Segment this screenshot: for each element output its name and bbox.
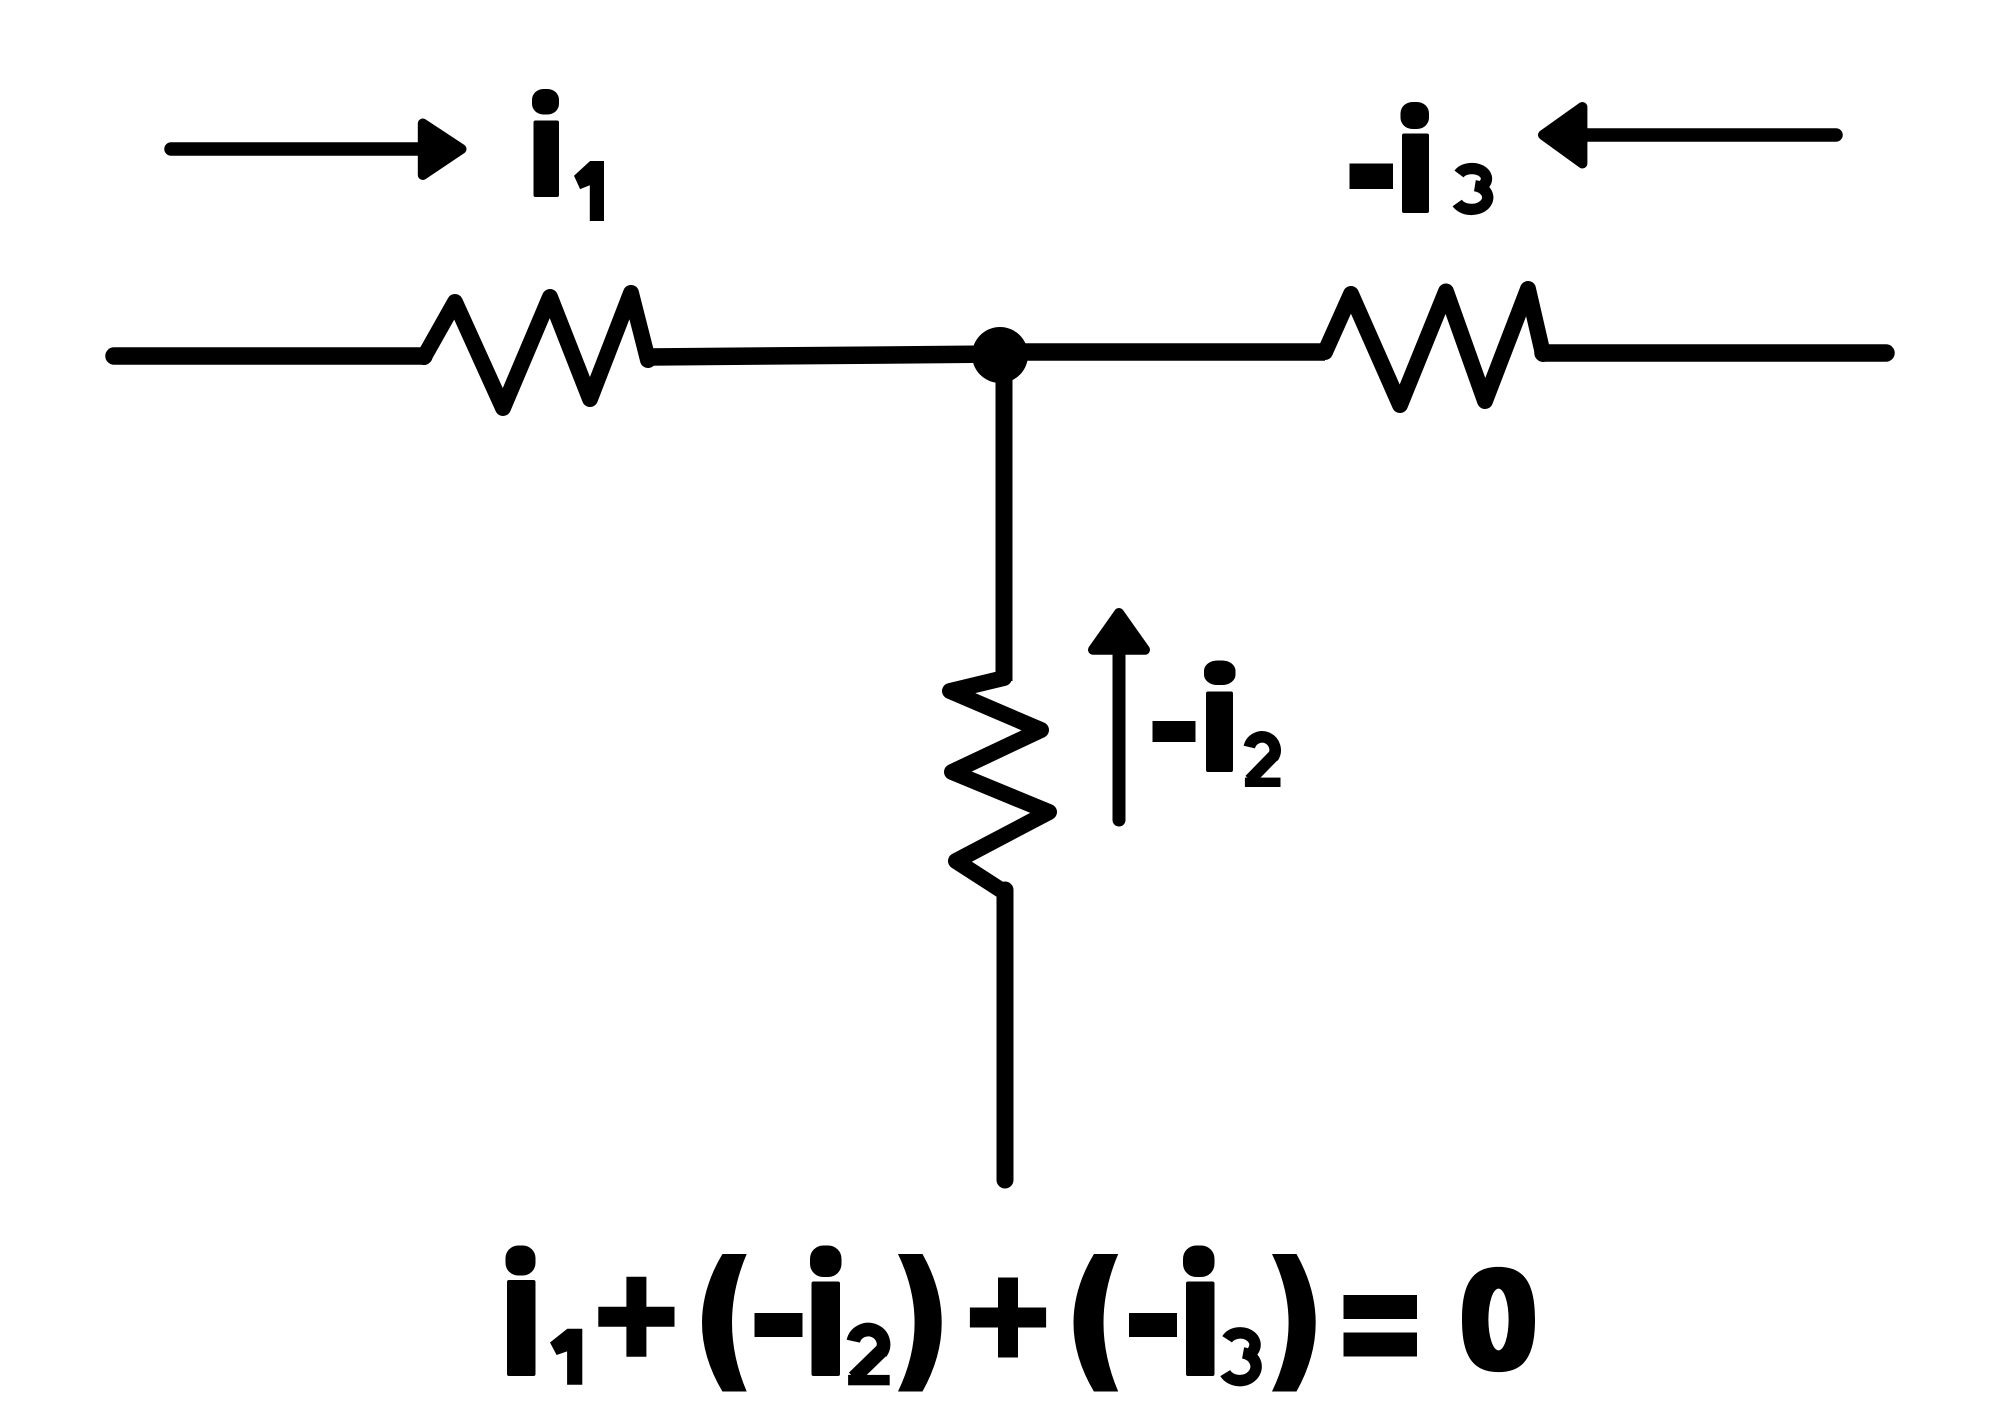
- label -i3 (top-right current label): [1350, 102, 1488, 213]
- resistor R1 (top-left branch, current i1): [424, 293, 648, 408]
- wire: left lead of R1: [114, 347, 424, 365]
- current arrow for i1 (pointing right): [171, 124, 462, 176]
- current arrow for -i2 (pointing up): [1093, 613, 1145, 820]
- equation label: i1+(-i2)+(-i3)=0: [506, 1246, 1536, 1392]
- wire: node A down to R2: [996, 355, 1013, 681]
- node A (junction dot): [972, 327, 1028, 383]
- wire: right lead of R3: [1543, 344, 1886, 362]
- resistor R3 (top-right branch, current i3): [1325, 289, 1543, 405]
- resistor R2 (bottom branch, current i2): [950, 678, 1049, 892]
- wire: node A to R3: [1000, 343, 1325, 361]
- current arrow for -i3 (pointing left): [1543, 107, 1836, 164]
- label i1 (top-left current label): [532, 89, 604, 221]
- label -i2 (bottom branch current label): [1153, 661, 1281, 788]
- wire: bottom lead of R2: [997, 890, 1014, 1180]
- wire: R1 to node A: [649, 354, 1000, 357]
